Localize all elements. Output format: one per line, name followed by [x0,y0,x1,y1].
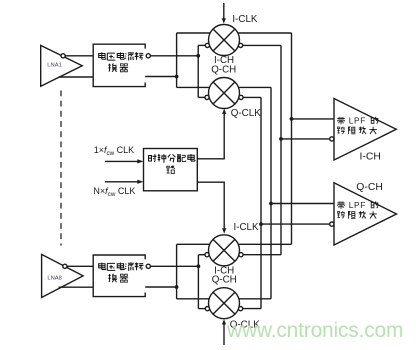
mixer M4: Q mixer (bottom) [205,288,242,319]
wire LNA1 inverted out to U1 [65,55,93,57]
wire LNA8 inverted out to U2 [67,265,93,267]
block U3: clock distribution circuit [144,149,198,191]
wire M4 upper-right to Q+ bus [239,298,271,300]
svg-text:Q-CH: Q-CH [356,182,383,193]
wire to mixer M2 left bubble [198,96,205,98]
wire I- to amp A1 inverted input [281,138,330,140]
node: I+ to amp A1 [290,117,294,121]
svg-text:I-CH: I-CH [360,152,381,163]
wire LNA8 out to U2 [59,286,94,288]
amplifier LNA8 [42,254,84,297]
wire: non-inverted riser (top pair) [176,33,178,87]
wire M2 right bubble to Q- bus [243,96,261,98]
mixer M1: I mixer (top) [205,25,242,56]
wire U2 output [145,286,176,288]
node: junction non-inverted riser bottom [175,285,179,289]
wire I-CLK from U3 to mixer M3 with arrow [197,182,226,233]
input arrow Nxf CLK [105,180,143,184]
node: junction non-inverted riser top [175,75,179,79]
op-amp A1: I-CH amplifier with LPF [330,99,397,161]
wire U1 inverted output [150,55,198,57]
wire Q-CLK from U3 to mixer M2 with arrow [197,109,226,159]
wire: Q- summing bus [260,97,262,308]
block U1: voltage-current converter (top) [93,44,150,86]
wire: I+ summing bus [291,33,293,244]
wire: inverted input bus (top pair) [197,45,199,97]
wire to mixer M1 left bubble [198,44,205,46]
wire to mixer M2 upper-left [177,86,210,88]
svg-text:I-CLK: I-CLK [232,14,258,25]
wire M1 upper-right to I+ bus [238,32,292,34]
node: Q+ to amp A2 [269,202,273,206]
node: I- to amp A1 [279,137,283,141]
mixer M3: I mixer (bottom) [205,235,243,266]
wire to mixer M4 left bubble [198,308,205,310]
svg-text:LNA8: LNA8 [47,276,62,282]
wire U2 inverted output [150,265,198,267]
svg-text:Q-CLK: Q-CLK [231,108,261,119]
wire M1 right bubble to I- bus [243,44,281,46]
op-amp A2: Q-CH amplifier with LPF [330,183,397,245]
wire to mixer M3 left bubble [198,254,205,256]
amplifier LNA1 [41,45,82,86]
wire LNA1 out to U1 [59,76,94,78]
svg-text:LPF: LPF [349,201,366,210]
wire to mixer M1 upper-left [177,32,211,34]
I-CLK arrow into mixer M1 [222,3,226,24]
wire U1 output [145,76,176,78]
wire: inverted input bus (bottom pair) [197,255,199,309]
svg-text:www.cntronics.com: www.cntronics.com [226,319,403,342]
node: junction inverted bus top [196,54,200,58]
wire M2 upper-right to Q+ bus [238,86,271,88]
node: junction inverted bus bottom [197,264,201,268]
wire Q+ to amp A2 input [271,203,334,205]
wire M3 upper-right to I+ bus [238,243,291,245]
block U2: voltage-current converter (bottom) [93,255,150,297]
wire to mixer M4 upper-left [177,298,210,300]
wire M4 right bubble to Q- bus [243,308,261,310]
svg-text:I-CLK: I-CLK [234,222,260,233]
wire I+ to amp A1 input [292,118,335,120]
svg-text:LPF: LPF [349,117,366,126]
wire: I- summing bus [280,45,282,254]
wire to mixer M3 upper-left [177,243,210,245]
dashed line: channels 2..7 omitted [60,91,62,246]
svg-text:Q-CH: Q-CH [211,64,236,75]
svg-text:LNA1: LNA1 [47,63,62,69]
node: Q- to amp A2 [259,222,263,226]
Q-CLK arrow into mixer M4 from bottom edge [222,319,226,345]
wire M3 right bubble to I- bus [243,254,281,256]
wire: Q+ summing bus [270,87,272,298]
mixer M2: Q mixer (top) [205,78,243,109]
input arrow 1xf CLK [105,159,143,163]
svg-text:Q-CH: Q-CH [212,274,237,285]
wire: non-inverted riser (bottom pair) [176,244,178,298]
wire Q- to amp A2 inverted input [261,223,330,225]
